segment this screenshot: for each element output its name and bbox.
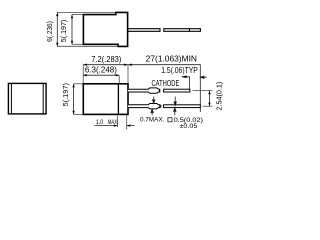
svg-text:5(.197): 5(.197) <box>61 20 68 42</box>
dimension line 1.0 MAX <box>94 124 134 126</box>
2.54 dim: extension from cathode lead centreline <box>193 90 213 92</box>
dimension line 5(.197) left of side view <box>72 84 74 115</box>
dimension line 5(.197) <box>71 15 73 45</box>
svg-text:MAX.: MAX. <box>108 119 118 126</box>
svg-text:CATHODE: CATHODE <box>152 79 180 88</box>
svg-text:1.0: 1.0 <box>96 119 104 126</box>
square0.5 upper arrow (onto lead2 top) <box>174 97 176 106</box>
extension line: body left, down to bottom view <box>82 65 84 84</box>
extension line: flange right, down to bottom view <box>127 65 129 84</box>
svg-text:7.2(.283): 7.2(.283) <box>91 55 122 64</box>
extension line: body top, 6-dim <box>57 12 116 14</box>
0.7MAX upper arrow (onto lead2 kink top) <box>153 97 155 104</box>
extension line: side view body bottom <box>74 113 84 115</box>
extension line: lens bottom, 5-dim <box>72 43 83 45</box>
svg-text:6(.236): 6(.236) <box>47 21 54 42</box>
cathode lead end tick, top view <box>188 29 190 32</box>
svg-text:0.7MAX.: 0.7MAX. <box>140 116 164 123</box>
front view inner left line <box>10 83 12 114</box>
LED body outline, side view <box>83 84 128 115</box>
cathode leader line <box>182 77 190 89</box>
dimension line 6(.236) <box>56 13 58 47</box>
extension line: lens top, 5-dim <box>72 14 83 16</box>
label square symbol <box>168 118 172 122</box>
arrow at lead end extension (27 dim right arrow) <box>200 76 206 78</box>
dimension line 2.54(0.1) <box>208 91 210 107</box>
svg-text:6.3(.248): 6.3(.248) <box>85 66 117 75</box>
extension line: flange bottom, 6-dim <box>57 45 118 47</box>
flange parting line, side view <box>117 84 119 115</box>
extension line: side view body top <box>74 83 84 85</box>
dimension line 7.2 <box>83 63 128 65</box>
svg-text:27(1.063)MIN: 27(1.063)MIN <box>146 55 197 64</box>
2.54 dim: extension from anode lead centreline <box>203 105 213 107</box>
square0.5 lower arrow (onto lead2 bottom) <box>174 108 176 116</box>
lead 2 second segment to tip <box>164 105 201 108</box>
svg-text:1.5(.06)TYP: 1.5(.06)TYP <box>161 66 198 75</box>
lead, top view, second segment <box>164 29 201 32</box>
svg-text:±0.05: ±0.05 <box>180 123 198 130</box>
lead 1 (cathode) side view: segment with stand-off kink <box>128 88 160 93</box>
svg-text:2.54(0.1): 2.54(0.1) <box>217 82 224 111</box>
LED body outline, top view <box>83 12 127 46</box>
front view outline <box>8 83 46 114</box>
front view inner right line <box>42 83 44 114</box>
lead 2 (anode) side view: segment with stand-off kink <box>128 104 160 109</box>
1.0 MAX dim: extension lines below flange <box>116 115 118 127</box>
0.7MAX lower arrow (onto lead2 kink bottom) <box>151 109 153 115</box>
lead 1 second segment to tip <box>164 89 190 92</box>
dimension line 27 MIN <box>128 63 200 112</box>
lead, top view, first segment <box>128 29 160 32</box>
svg-text:5(.197): 5(.197) <box>63 83 70 106</box>
extension line: flange left, down to bottom view <box>118 75 120 83</box>
dimension line 6.3 <box>83 74 119 76</box>
